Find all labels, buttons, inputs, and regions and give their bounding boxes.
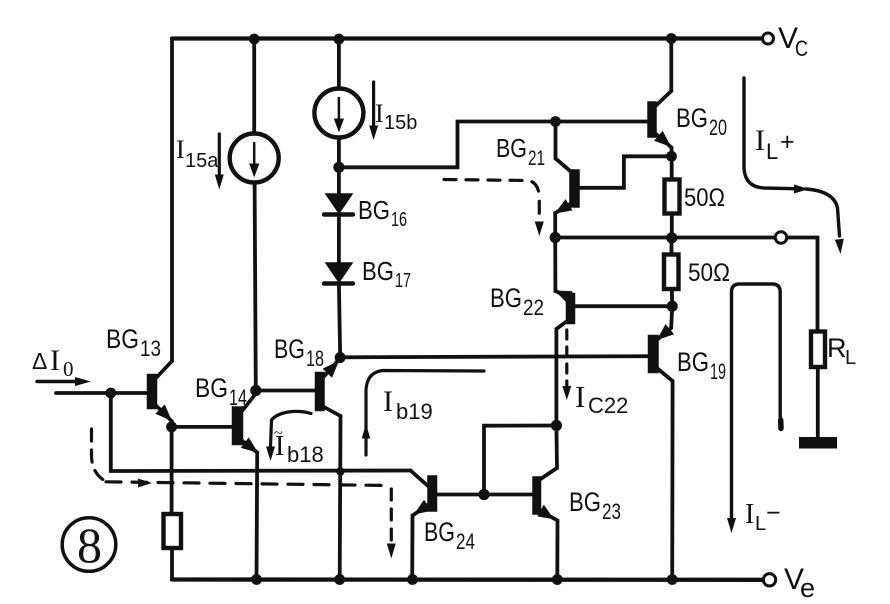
svg-text:21: 21 [528,147,545,170]
wire between diodes [337,215,341,266]
svg-text:BG: BG [195,373,228,403]
svg-text:−: − [766,499,781,527]
svg-text:17: 17 [395,270,411,292]
diode BG17 [324,263,353,284]
wire dashed IC22 [565,330,568,386]
node feedback wire BG18 emitter cross [336,467,344,475]
svg-text:I: I [755,124,765,157]
svg-text:BG: BG [496,133,527,163]
wire BG14 collector junction to BG18 base [256,389,316,393]
current source I15a [230,134,279,183]
svg-text:I: I [375,99,384,128]
svg-text:e: e [800,573,815,603]
wire BG14 emitter column to bottom rail [255,453,260,580]
svg-text:13: 13 [140,336,161,361]
wire BG24 emitter to bottom rail [412,505,428,580]
wire BG13 emitter to BG14 base [172,425,233,429]
node diode junction [333,162,344,173]
wire BG23 collector up [541,426,558,480]
svg-text:L: L [755,513,766,535]
wire BG22 emitter down to node [556,322,566,426]
wire BG23 emitter to bottom rail [541,511,558,580]
wire output node row [555,236,775,240]
transistor BG21 [555,170,579,213]
node top rail I15a [249,34,260,45]
resistor 50ohm R1 [665,180,680,214]
wire I15b column upper [337,39,341,89]
node BG14 collector junction [250,385,261,396]
transistor BG19 [649,326,673,373]
wire output terminal to RL corner [787,238,818,332]
node BG22 base [667,301,678,312]
svg-text:BG: BG [106,324,139,354]
node circled figure 8 [62,517,116,573]
wire 50ohm R1 to output node [670,214,674,239]
node bottom rail BG14 [251,574,262,585]
node bottom rail BG23 [552,574,563,585]
node top rail I15b [334,34,345,45]
node BG13 emitter junction [166,421,177,432]
svg-text:+: + [780,128,795,156]
transistor BG18 [316,358,341,416]
wire input branch down [111,393,411,471]
svg-text:Δ: Δ [32,348,47,374]
node BG20 emitter [666,151,677,162]
ground [799,437,837,449]
wire BG13 emitter column to resistor [170,427,174,514]
arrow Ib18 [271,411,312,447]
svg-text:b19: b19 [396,399,433,424]
wire dashed feedback down to BG24 [390,489,393,540]
wire BG24 collector diagonal [411,471,429,487]
transistor BG23 [533,477,553,518]
arrow input dI0 [37,380,84,383]
wire node to BG19 collector [658,306,672,339]
wire BG22 base row [575,304,673,308]
wire resistor to bottom rail corner [170,548,174,580]
wire I15b column to diode junction [337,138,341,168]
node input junction [105,388,116,399]
node bottom rail BG18 [334,574,345,585]
svg-text:BG: BG [274,334,305,364]
svg-text:18: 18 [306,346,324,371]
wire BG19 emitter to bottom rail [658,369,673,580]
resistor left unlabeled [164,514,182,548]
svg-text:C: C [795,36,808,61]
svg-text:20: 20 [709,115,727,140]
wire diode junction to BG20 base [339,122,648,168]
node bottom rail BG24 [407,574,418,585]
transistor BG24 [416,476,437,514]
resistor 50ohm R2 [664,255,679,290]
wire BG17 to BG18 collector junction [339,284,340,359]
svg-text:50Ω: 50Ω [688,259,730,287]
node BG23 BG24 base row [478,489,489,500]
svg-text:19: 19 [710,359,726,384]
current source I15b [314,89,363,138]
svg-text:BG: BG [490,283,522,313]
wire BG22 collector up to output node [555,238,566,297]
node BG21 collector tap [550,116,561,127]
svg-text:8: 8 [77,517,102,573]
svg-text:0: 0 [63,357,74,381]
svg-text:BG: BG [676,103,708,133]
transistor BG22 [557,291,575,323]
svg-text:I: I [745,499,754,530]
svg-text:22: 22 [523,295,544,320]
wire BG18 emitter column to bottom rail [338,416,343,580]
wire BG21 collector drop [556,122,571,172]
svg-text:b18: b18 [287,442,324,467]
svg-text:16: 16 [391,209,407,231]
wire top rail Vc [172,36,762,40]
arrow IL- hairpin [732,284,781,518]
node top rail BG20 [666,33,677,44]
wire I15a column lower to BG14 collector junction [255,183,256,391]
wire I15a column upper [252,39,256,134]
svg-text:I: I [575,379,585,414]
svg-text:I: I [383,385,393,418]
svg-text:15b: 15b [384,112,417,134]
wire BG20 collector to top rail [669,39,673,92]
arrow Ib19 [366,371,484,456]
svg-text:BG: BG [424,517,455,547]
wire BG21 emitter column to output node [553,213,557,238]
wire BG24 base to BG23 base [437,493,534,497]
transistor BG13 [148,361,173,427]
svg-text:~: ~ [274,425,283,442]
arrow IL+ [744,78,800,189]
wire node step to BG23/BG24 base row [484,426,556,495]
svg-text:C22: C22 [588,393,628,418]
transistor BG14 [233,391,258,453]
svg-text:L: L [766,139,778,164]
svg-text:BG: BG [677,347,709,377]
wire left column BG13 collector to top rail [170,39,174,362]
svg-text:BG: BG [569,487,601,517]
wire node to 50ohm R1 [670,156,674,179]
diode BG16 [324,194,353,215]
wire RL to ground [816,367,820,437]
wire input [56,391,148,395]
svg-text:L: L [845,347,856,369]
wire dashed feedback left [92,429,107,482]
terminal Vc [763,33,774,44]
svg-text:50Ω: 50Ω [684,184,725,212]
wire 50ohm R2 to BG22 base node [670,289,674,306]
svg-text:BG: BG [358,195,390,225]
wire output node to 50ohm R2 [670,238,674,255]
svg-text:24: 24 [456,529,475,554]
wire dashed feedback bottom row [106,482,388,486]
node BG22 emitter BG23 collector [551,420,562,431]
svg-text:I: I [176,135,185,164]
terminal Ve [763,574,775,586]
svg-text:R: R [827,333,847,363]
wire diode chain column [337,167,341,196]
node output left [550,232,561,243]
wire bottom rail Ve [172,577,763,582]
svg-text:BG: BG [362,256,394,286]
wire BG20 emitter to node [670,148,674,157]
wire dashed BG21 branch [444,180,539,222]
svg-text:14: 14 [229,385,247,410]
node bottom rail BG19 [667,574,678,585]
terminal output node [775,232,787,244]
node output 50ohm [666,232,677,243]
resistor RL [811,332,825,368]
wire BG21 base loop to BG20 emitter node [579,156,672,188]
svg-text:I: I [50,344,60,377]
arrow I15b [372,82,375,127]
wire BG18 collector junction to BG19 base [340,356,648,357]
node BG18 collector junction [335,352,346,363]
svg-text:15a: 15a [185,150,219,172]
arrow I15a [218,134,221,176]
svg-text:23: 23 [602,499,621,524]
transistor BG20 [648,91,672,148]
